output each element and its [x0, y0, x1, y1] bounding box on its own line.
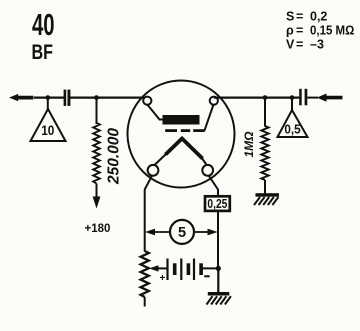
- svg-text:0,5: 0,5: [284, 122, 300, 137]
- tube pin: bottom-right (filament): [202, 165, 213, 176]
- wire: resistor to ground: [264, 180, 266, 194]
- resistor 250.000 (zigzag): [93, 123, 100, 184]
- wire: potentiometer bottom stub: [144, 297, 146, 307]
- meter arrow right: [194, 229, 218, 236]
- capacitor (input coupling), right plate: [68, 90, 71, 106]
- svg-text:S: S: [286, 10, 294, 24]
- wire: from 0,25 box down to battery junction: [217, 211, 219, 270]
- grid lead to top-right pin: [205, 105, 214, 131]
- battery cell 2 long plate: [180, 259, 182, 281]
- svg-text:ρ: ρ: [286, 24, 294, 38]
- svg-text:250.000: 250.000: [106, 128, 123, 185]
- svg-text:+180: +180: [85, 223, 111, 235]
- wire: tube bottom-right pin to 0,25 capacitor: [209, 175, 219, 196]
- wire: stub down to triangle 0,5: [291, 98, 293, 112]
- svg-text:0,2: 0,2: [310, 10, 327, 24]
- grid (dashed electrode): [165, 129, 205, 132]
- wire: stub down to resistor 250.000: [96, 98, 98, 124]
- parameter label rho = 0,15 MOhm: [286, 23, 355, 38]
- svg-text:0,25: 0,25: [207, 198, 228, 211]
- potentiometer (filament rheostat, zigzag): [141, 251, 149, 297]
- resistor 1 Mohm (zigzag): [261, 126, 268, 180]
- filament (V shape): [153, 139, 208, 167]
- tube pin: top-right (anode side): [210, 97, 218, 105]
- winding / transformer triangle value 10: [31, 109, 66, 141]
- svg-text:=: =: [296, 10, 303, 24]
- svg-text:40: 40: [32, 7, 55, 42]
- node: junction at grid resistor 1 Mohm: [263, 95, 268, 100]
- meter arrow left: [145, 229, 170, 236]
- value label 250.000 (rotated): [106, 128, 123, 185]
- battery cell 3 short plate: [199, 263, 203, 275]
- svg-text:1MΩ: 1MΩ: [242, 131, 256, 158]
- capacitor (output), left plate: [299, 89, 302, 106]
- battery minus sign: [204, 275, 210, 277]
- parameter label V = -3: [286, 38, 324, 52]
- right input arrow (pointing left): [307, 94, 342, 102]
- meter circle 5: [170, 220, 194, 244]
- svg-text:+: +: [160, 273, 166, 284]
- parameter label S = 0,2: [286, 10, 327, 24]
- ground (grid resistor): [254, 193, 279, 205]
- svg-text:0,15 MΩ: 0,15 MΩ: [310, 23, 355, 38]
- wire: junction down to ground: [217, 268, 219, 293]
- winding / transformer triangle value 0,5: [278, 110, 308, 137]
- capacitor (output), right plate: [305, 89, 308, 106]
- svg-text:–3: –3: [310, 38, 324, 52]
- wire: left horizontal from arrow to input capacitor: [34, 96, 64, 98]
- wire: right horizontal from tube to output capacitor: [214, 96, 300, 98]
- wire: stub down to resistor 1 Mohm: [264, 98, 266, 127]
- tube type label "BF": [32, 41, 53, 65]
- battery cell 1 short plate: [173, 263, 177, 275]
- battery cell 2 short plate: [187, 263, 191, 275]
- left output arrow: [9, 94, 34, 101]
- tube anode plate (filled bar): [163, 115, 200, 125]
- svg-text:=: =: [296, 24, 303, 38]
- node: junction at winding triangle 10: [45, 95, 50, 100]
- wire: tube bottom-left pin to cathode column: [145, 175, 153, 251]
- wire: battery to ground junction: [203, 267, 220, 269]
- svg-text:BF: BF: [32, 41, 53, 65]
- tube V1 envelope (circle): [128, 81, 235, 188]
- boxed capacitor value 0,25: [205, 196, 230, 211]
- wire: resistor tail with down arrow to +180 supply: [93, 184, 101, 209]
- svg-text:=: =: [296, 38, 303, 52]
- svg-text:5: 5: [178, 225, 186, 241]
- battery cell 1 long plate: [166, 259, 168, 281]
- svg-text:10: 10: [41, 122, 54, 138]
- node: battery/cathode ground junction: [216, 266, 221, 271]
- svg-text:V: V: [286, 38, 295, 52]
- battery plus sign: [160, 273, 166, 284]
- tube type label "40": [32, 7, 55, 42]
- wire: from input capacitor to tube grid-cap pin: [70, 96, 147, 98]
- capacitor (input coupling), left plate: [64, 90, 67, 106]
- supply label +180: [85, 223, 111, 235]
- potentiometer wiper arrow from battery: [149, 265, 167, 271]
- anode lead from top-left pin: [147, 105, 163, 120]
- ground (battery return): [207, 292, 231, 305]
- node: junction at triangle 0,5: [290, 95, 295, 100]
- battery cell 3 long plate: [193, 259, 195, 281]
- tube pin: top-left (grid cap): [143, 97, 151, 105]
- tube pin: bottom-left (filament): [148, 165, 159, 176]
- wire: stub down to triangle 10: [47, 98, 49, 111]
- node: junction at plate resistor 250.000: [94, 95, 99, 100]
- value label 1 Mohm (rotated): [242, 131, 256, 158]
